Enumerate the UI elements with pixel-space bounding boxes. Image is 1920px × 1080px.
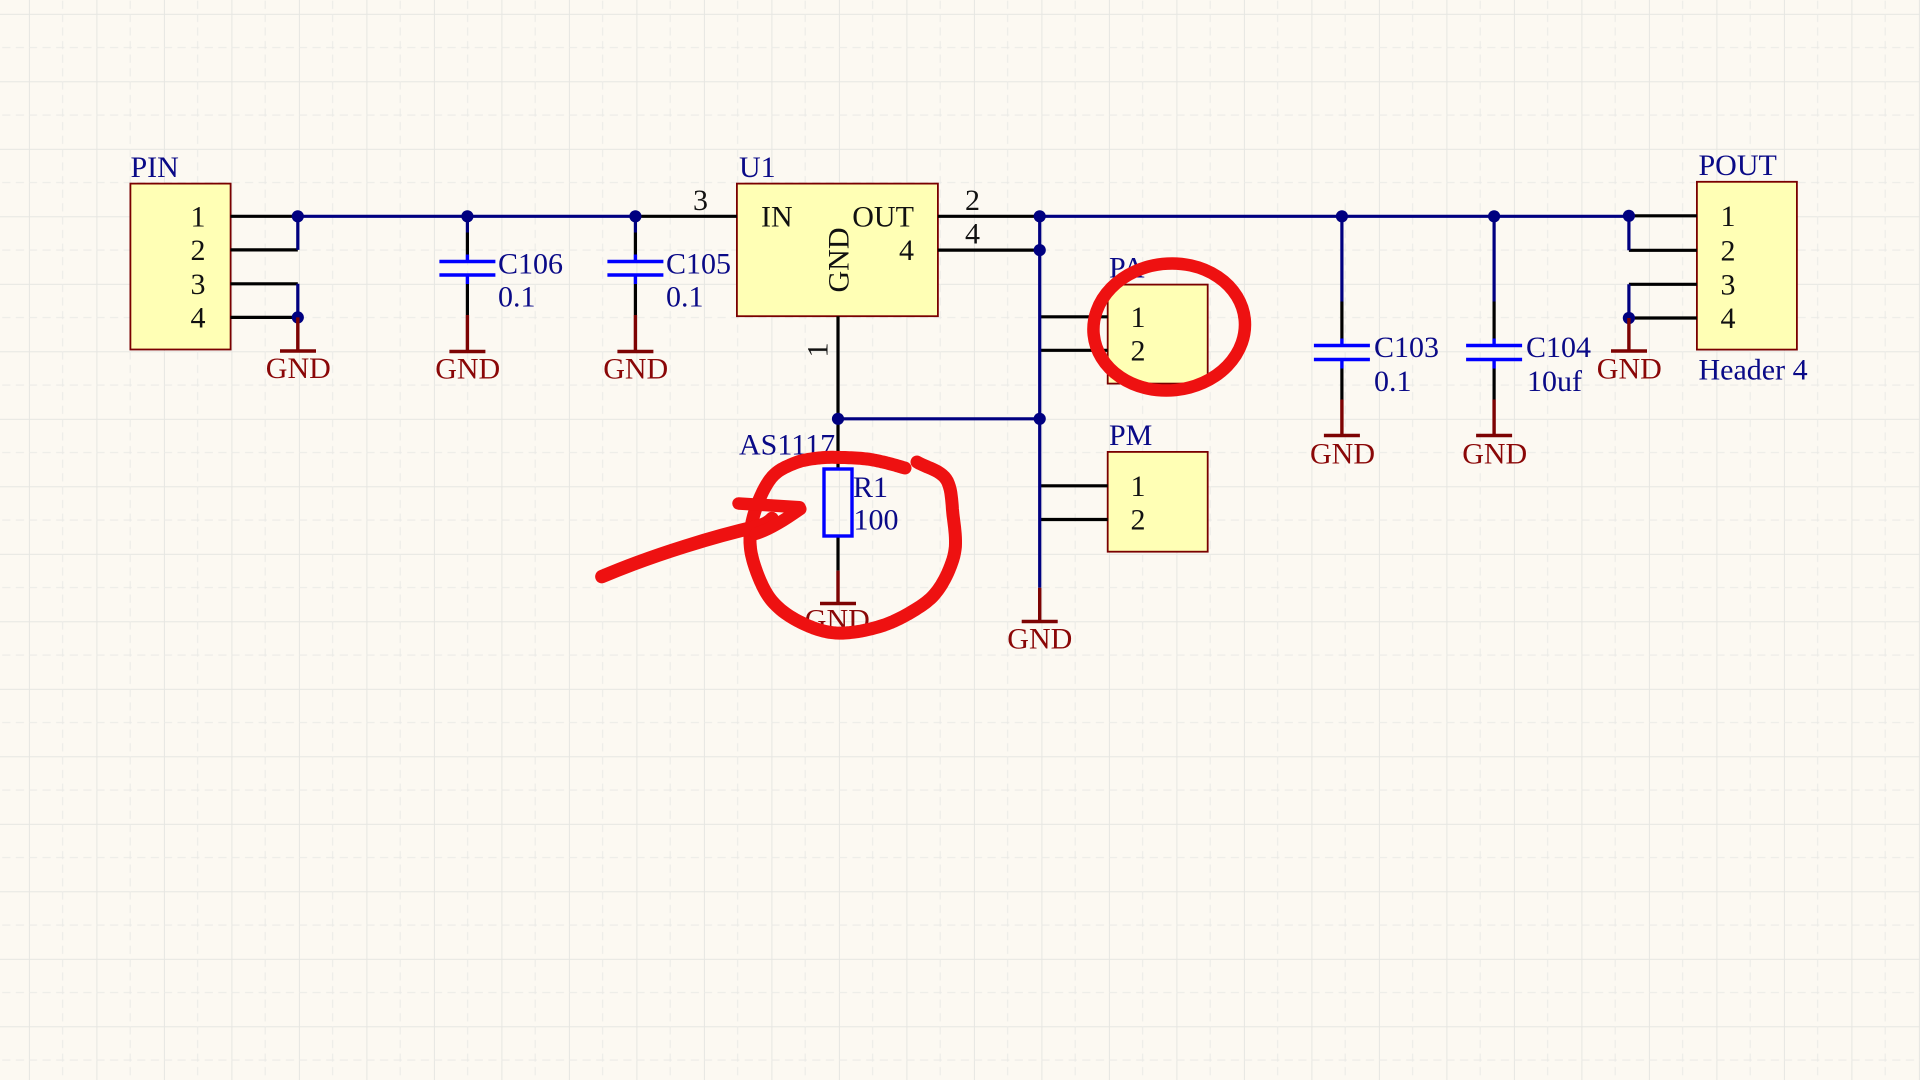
svg-text:3: 3 bbox=[693, 184, 708, 217]
svg-text:GND: GND bbox=[1007, 623, 1072, 656]
svg-text:GND: GND bbox=[603, 353, 668, 386]
svg-text:C106: C106 bbox=[498, 248, 563, 281]
svg-text:0.1: 0.1 bbox=[666, 281, 704, 314]
svg-text:3: 3 bbox=[191, 268, 206, 301]
svg-text:1: 1 bbox=[1721, 200, 1736, 233]
svg-text:0.1: 0.1 bbox=[498, 281, 536, 314]
svg-text:2: 2 bbox=[191, 234, 206, 267]
svg-text:R1: R1 bbox=[853, 471, 888, 504]
svg-text:4: 4 bbox=[965, 218, 980, 251]
svg-text:Header 4: Header 4 bbox=[1699, 354, 1808, 387]
svg-text:C104: C104 bbox=[1526, 331, 1591, 364]
svg-text:2: 2 bbox=[1721, 234, 1736, 267]
svg-text:2: 2 bbox=[1131, 334, 1146, 367]
svg-text:10uf: 10uf bbox=[1527, 365, 1582, 398]
svg-text:GND: GND bbox=[266, 352, 331, 385]
svg-text:GND: GND bbox=[1310, 438, 1375, 471]
svg-text:3: 3 bbox=[1721, 268, 1736, 301]
svg-text:C103: C103 bbox=[1374, 331, 1439, 364]
svg-text:100: 100 bbox=[854, 504, 899, 537]
svg-text:2: 2 bbox=[1131, 504, 1146, 537]
svg-text:0.1: 0.1 bbox=[1374, 365, 1412, 398]
svg-text:C105: C105 bbox=[666, 248, 731, 281]
svg-text:IN: IN bbox=[761, 200, 793, 233]
svg-text:GND: GND bbox=[1462, 438, 1527, 471]
svg-text:GND: GND bbox=[1597, 353, 1662, 386]
svg-text:4: 4 bbox=[191, 301, 206, 334]
svg-text:1: 1 bbox=[191, 200, 206, 233]
svg-text:4: 4 bbox=[899, 234, 914, 267]
svg-text:GND: GND bbox=[823, 228, 856, 293]
svg-text:PIN: PIN bbox=[131, 151, 179, 184]
svg-text:1: 1 bbox=[1131, 470, 1146, 503]
svg-text:OUT: OUT bbox=[852, 200, 914, 233]
svg-text:POUT: POUT bbox=[1699, 149, 1777, 182]
svg-text:GND: GND bbox=[435, 353, 500, 386]
svg-text:1: 1 bbox=[802, 343, 835, 358]
svg-text:PM: PM bbox=[1109, 419, 1152, 452]
svg-text:U1: U1 bbox=[739, 151, 776, 184]
svg-text:4: 4 bbox=[1721, 302, 1736, 335]
svg-text:1: 1 bbox=[1131, 301, 1146, 334]
svg-text:2: 2 bbox=[965, 184, 980, 217]
